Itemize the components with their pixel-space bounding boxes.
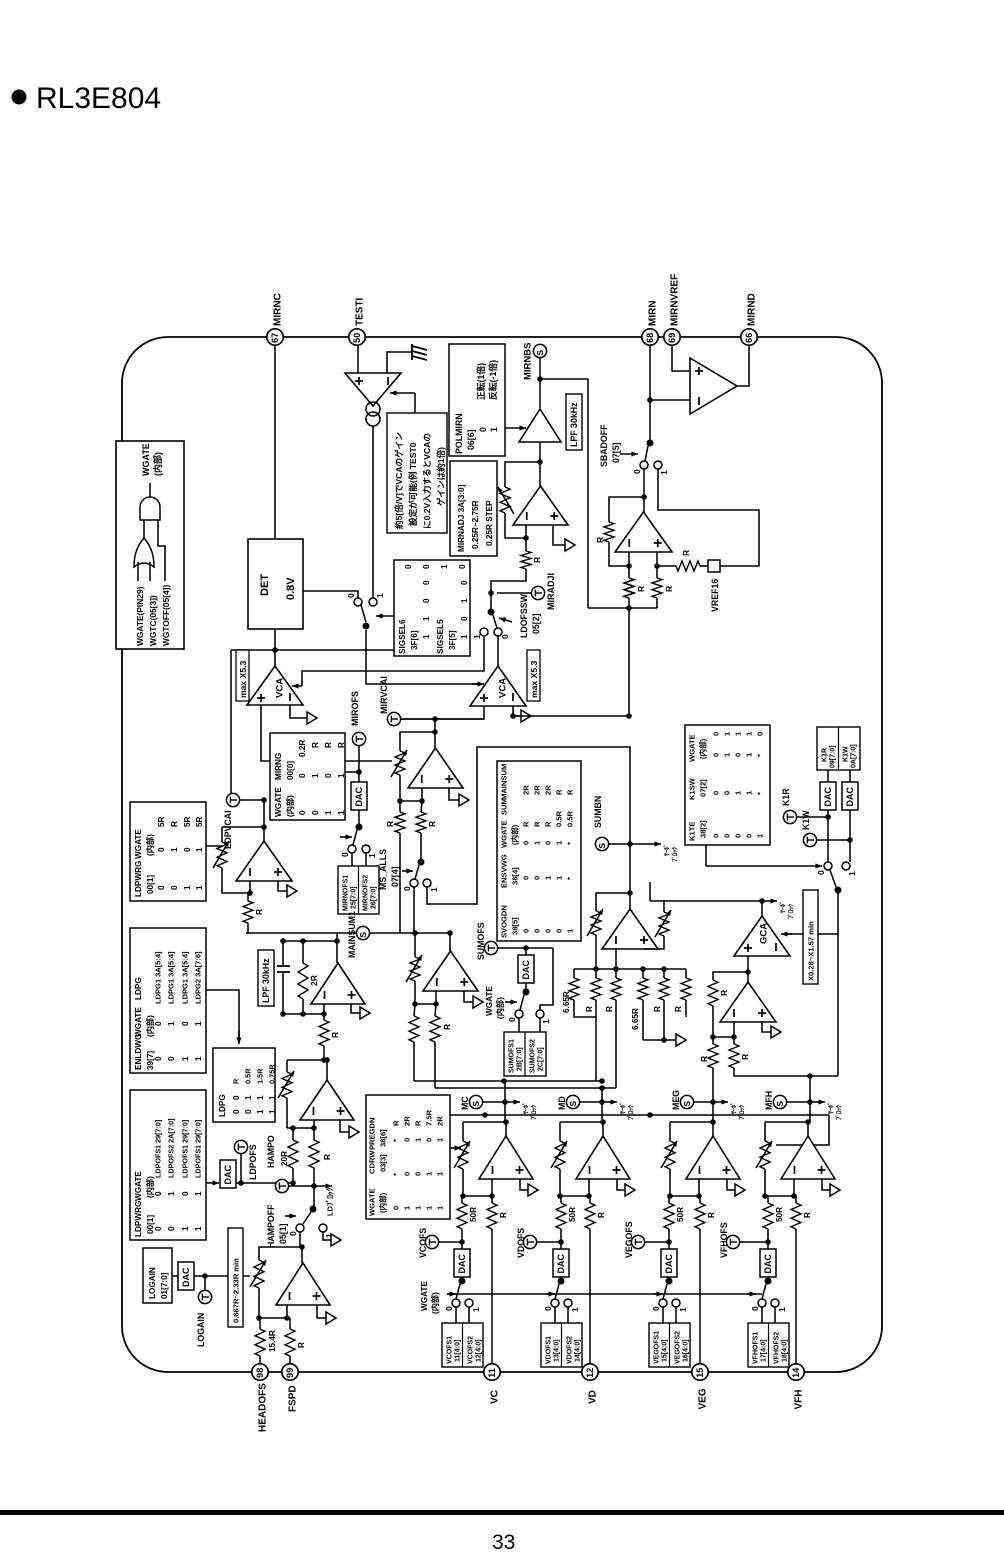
- resistor R: [521, 538, 542, 569]
- svg-text:6.65R: 6.65R: [562, 991, 571, 1013]
- wire MEG plus to flag: [727, 1179, 745, 1196]
- table K1TE K1SW WGATE: [685, 725, 770, 845]
- svg-text:R: R: [533, 821, 542, 827]
- arrow POLMIRN to buffer: [505, 427, 526, 429]
- svg-text:max X5.3: max X5.3: [529, 661, 539, 698]
- svg-text:LPF 30kHz: LPF 30kHz: [569, 402, 579, 447]
- input resistor row wire: [574, 968, 686, 970]
- svg-text:2B[7:0]: 2B[7:0]: [517, 1047, 524, 1071]
- svg-text:R: R: [427, 821, 437, 827]
- test point LOGAIN: [196, 1290, 211, 1347]
- svg-text:98: 98: [255, 1368, 265, 1378]
- op-amp MD mixer: [576, 1136, 630, 1179]
- svg-text:(内部): (内部): [378, 1192, 388, 1213]
- svg-text:WGATE: WGATE: [274, 787, 283, 817]
- DAC VCOFS: [454, 1249, 470, 1277]
- test point K1R: [781, 788, 831, 824]
- DAC LOGAIN: [172, 1262, 194, 1290]
- wire DET out: [303, 591, 358, 598]
- svg-text:ﾌﾞﾛｯｸ: ﾌﾞﾛｯｸ: [627, 1105, 635, 1120]
- svg-text:0: 0: [422, 580, 431, 585]
- register box MIRNOFS1 MIRNOFS2: [338, 866, 379, 914]
- svg-text:LDPG: LDPG: [218, 1094, 227, 1117]
- svg-text:POLMIRN: POLMIRN: [454, 413, 464, 454]
- svg-text:5R: 5R: [183, 816, 192, 827]
- svg-text:DAC: DAC: [354, 787, 364, 807]
- svg-text:0: 0: [723, 791, 732, 795]
- arrow from SIGSEL table: [376, 615, 394, 617]
- svg-text:R: R: [585, 1006, 594, 1012]
- svg-text:K1W: K1W: [801, 810, 811, 830]
- wire out to LDPVCAI node: [222, 800, 267, 841]
- svg-text:1: 1: [460, 598, 469, 603]
- wire sumofs out: [449, 933, 451, 951]
- svg-text:0: 0: [458, 564, 467, 569]
- wires switch to register box: [352, 853, 366, 866]
- register box VEGOFS1 VEGOFS2: [649, 1307, 690, 1367]
- wire ENLDWG to LDPG table: [206, 990, 242, 1044]
- resistor R down left: [699, 1037, 718, 1102]
- test point MIROFS: [350, 691, 365, 746]
- wire minus input: [525, 525, 527, 538]
- svg-text:99: 99: [285, 1368, 295, 1378]
- wire MS_ALLS-0 down: [413, 887, 415, 933]
- svg-text:05[1]: 05[1]: [278, 1223, 288, 1244]
- svg-text:0A[7:0]: 0A[7:0]: [851, 744, 858, 768]
- svg-text:(内部): (内部): [145, 834, 155, 856]
- wire SUMBN node: [609, 841, 646, 847]
- svg-text:20R: 20R: [280, 1151, 289, 1166]
- svg-text:ｻｰﾎﾞ: ｻｰﾎﾞ: [779, 901, 787, 913]
- register box VCOFS1 VCOFS2: [442, 1307, 483, 1367]
- svg-text:14: 14: [791, 1368, 801, 1378]
- svg-text:FSPD: FSPD: [288, 1385, 299, 1412]
- svg-text:WGATE: WGATE: [134, 829, 143, 859]
- svg-text:0: 0: [392, 1206, 401, 1210]
- test point HAMPO: [266, 1135, 314, 1193]
- wire left R down to sum wire: [399, 833, 401, 933]
- svg-text:0: 0: [712, 791, 721, 795]
- variable resistor MD: [551, 1122, 567, 1199]
- svg-text:S: S: [775, 1101, 785, 1107]
- max X5.3 box 2: [527, 650, 540, 701]
- wire sumofs dac node: [498, 945, 553, 955]
- svg-text:0: 0: [522, 876, 531, 880]
- op-amp MFH mixer: [781, 1136, 835, 1179]
- wire B plus to flag: [762, 1022, 781, 1038]
- svg-text:ｻｰﾎﾞ: ｻｰﾎﾞ: [730, 1102, 738, 1114]
- svg-text:1: 1: [195, 847, 204, 852]
- wire feedback: [596, 893, 630, 911]
- svg-text:R: R: [385, 821, 395, 827]
- svg-text:1: 1: [256, 1095, 265, 1100]
- pin 69 MIRNVREF: [664, 274, 681, 345]
- wire plus to flag: [351, 1004, 370, 1019]
- wire table to var resistor: [206, 845, 222, 847]
- resistor R: [585, 969, 601, 1081]
- test point VFHOFS: [719, 1222, 768, 1258]
- svg-text:1: 1: [429, 887, 439, 892]
- svg-text:R: R: [566, 789, 575, 795]
- svg-text:ｻｰﾎﾞ: ｻｰﾎﾞ: [827, 1102, 835, 1114]
- label LDOFSSW 05[2]: [519, 593, 541, 638]
- wire VCA1 plus input: [261, 705, 270, 761]
- wire K1 table to switch arrow: [706, 845, 822, 869]
- svg-text:0: 0: [414, 1172, 423, 1176]
- op-amp LDPWRG: [236, 841, 292, 881]
- resistor 6.65R: [562, 969, 596, 1017]
- svg-text:1: 1: [570, 1307, 580, 1312]
- svg-text:1: 1: [541, 1019, 551, 1024]
- svg-text:1: 1: [472, 634, 482, 639]
- signal source MFH: [764, 1091, 786, 1110]
- DAC VEGOFS: [661, 1249, 677, 1277]
- resistor R: [605, 969, 621, 1088]
- servo block arrow: [646, 843, 661, 845]
- arrow MS_ALLS: [402, 870, 413, 872]
- wire B out to GCA plus: [747, 972, 749, 982]
- svg-text:0: 0: [288, 1231, 298, 1236]
- svg-text:VD: VD: [588, 1390, 599, 1404]
- svg-text:DAC: DAC: [181, 1267, 191, 1287]
- table WGATE CDRW PREGDN: [366, 1095, 450, 1219]
- resistor 2R: [298, 941, 319, 1014]
- svg-text:R: R: [605, 1006, 614, 1012]
- wire plus to flag: [553, 525, 565, 545]
- svg-text:K1W: K1W: [843, 746, 850, 762]
- svg-text:15.4R: 15.4R: [268, 1330, 277, 1352]
- svg-text:0: 0: [154, 1191, 163, 1196]
- svg-text:(内部): (内部): [495, 997, 505, 1019]
- svg-text:2C[7:0]: 2C[7:0]: [538, 1047, 545, 1071]
- svg-text:VEGOFS1: VEGOFS1: [654, 1331, 661, 1364]
- svg-text:K1R: K1R: [781, 788, 791, 806]
- svg-text:WGATE: WGATE: [500, 820, 509, 848]
- svg-text:ﾌﾞﾛｯｸ: ﾌﾞﾛｯｸ: [738, 1105, 746, 1120]
- logic box WGATE internal: [116, 441, 184, 649]
- svg-text:MIRNC: MIRNC: [273, 293, 284, 326]
- wire minus from rail: [647, 397, 690, 403]
- svg-text:(内部): (内部): [430, 1292, 440, 1314]
- svg-text:WGATE: WGATE: [420, 1281, 429, 1311]
- svg-text:約5[倍/V]でVCAのゲイン: 約5[倍/V]でVCAのゲイン: [393, 432, 404, 529]
- resistor R right: [416, 801, 437, 833]
- svg-text:LPF 30kHz: LPF 30kHz: [261, 958, 271, 1003]
- svg-text:00[0]: 00[0]: [286, 761, 295, 780]
- wire 50R to DAC MEG: [666, 1229, 672, 1249]
- wire R to pin MD: [589, 1229, 591, 1364]
- resistor R gca: [708, 980, 729, 1037]
- svg-text:07[5]: 07[5]: [611, 442, 621, 463]
- svg-text:MS_ALLS: MS_ALLS: [378, 849, 388, 890]
- wire MEG node: [694, 1099, 716, 1105]
- wire pin67 to DET: [274, 345, 276, 539]
- ground flag: [459, 794, 469, 806]
- wire K1 pole to GCA control: [783, 890, 838, 934]
- svg-text:2R: 2R: [436, 1116, 445, 1126]
- table LDPWRG WGATE: [130, 802, 206, 901]
- svg-text:0: 0: [425, 1138, 434, 1142]
- wire R to pin MFH: [795, 1229, 797, 1364]
- svg-text:0: 0: [157, 847, 166, 852]
- svg-text:0: 0: [157, 885, 166, 890]
- wire LDPVCAI rail: [230, 650, 232, 800]
- variable resistor LDPWRG: [213, 827, 248, 893]
- svg-text:S: S: [358, 932, 368, 938]
- svg-text:12: 12: [585, 1368, 595, 1378]
- test point LDPVCAI: [223, 793, 267, 849]
- wire K1 rail down: [837, 934, 839, 1076]
- table SVOGDN ENSVWG WGATE SUM MAINSUM: [497, 761, 581, 941]
- svg-text:MIRNOFS2: MIRNOFS2: [363, 875, 370, 911]
- svg-text:R: R: [324, 742, 333, 748]
- pin 12 VD: [582, 1364, 599, 1404]
- svg-text:正転(1倍): 正転(1倍): [475, 363, 486, 400]
- variable resistor MEG: [661, 1122, 677, 1199]
- wire DET to VCA1: [274, 629, 276, 666]
- wire MFH feedback: [765, 1121, 808, 1123]
- wire minus node: [397, 775, 425, 804]
- page title bullet: [12, 90, 27, 105]
- svg-text:SUMOFS2: SUMOFS2: [530, 1039, 537, 1073]
- DAC VFHOFS: [760, 1249, 776, 1277]
- svg-text:38[4]: 38[4]: [511, 867, 520, 885]
- svg-text:S: S: [535, 350, 545, 356]
- svg-text:0: 0: [154, 1021, 163, 1026]
- or-gate: [134, 538, 154, 567]
- svg-text:MIROFS: MIROFS: [350, 691, 360, 726]
- svg-text:0: 0: [167, 1056, 176, 1061]
- wire DAC to var resistor: [194, 1273, 250, 1290]
- resistor R down right: [729, 1037, 838, 1076]
- svg-text:反転(-1倍): 反転(-1倍): [487, 360, 498, 400]
- svg-text:1: 1: [194, 1226, 203, 1231]
- wire MC node: [483, 1099, 508, 1105]
- arrow SBADOFF: [620, 453, 638, 455]
- svg-text:16[4:0]: 16[4:0]: [683, 1339, 690, 1362]
- test point VDOFS: [516, 1228, 561, 1258]
- svg-text:0: 0: [544, 929, 553, 933]
- resistor R MC: [487, 1196, 508, 1229]
- ground: [387, 344, 427, 373]
- svg-text:VCOFS2: VCOFS2: [468, 1336, 475, 1364]
- svg-text:MIRNBS: MIRNBS: [522, 343, 533, 380]
- switch DET/multiplier select: [346, 593, 385, 630]
- resistor R sumofs left: [409, 1004, 419, 1081]
- svg-text:R: R: [414, 1120, 423, 1126]
- svg-text:R: R: [597, 1212, 606, 1218]
- svg-text:1: 1: [170, 847, 179, 852]
- wire MIRNADJ out: [539, 462, 541, 486]
- svg-text:HAMPOFF: HAMPOFF: [266, 1204, 276, 1248]
- op-amp TESTI buffer: [345, 373, 401, 406]
- svg-text:12[4:0]: 12[4:0]: [476, 1339, 483, 1362]
- svg-text:0: 0: [712, 732, 721, 736]
- svg-text:25[7:0]: 25[7:0]: [351, 886, 358, 909]
- svg-text:SUMOFS: SUMOFS: [476, 922, 486, 960]
- wire minus row: [280, 1004, 327, 1017]
- resistor R left: [385, 801, 405, 833]
- svg-text:R: R: [699, 1056, 709, 1062]
- svg-text:R: R: [522, 821, 531, 827]
- svg-text:MIRNVREF: MIRNVREF: [670, 274, 681, 326]
- DAC LDP offset: [220, 1160, 236, 1188]
- table ENLDWG WGATE LDPG: [130, 928, 206, 1073]
- svg-text:(内部): (内部): [285, 795, 295, 817]
- svg-text:1: 1: [678, 1307, 688, 1312]
- wire MC minus node: [463, 1179, 495, 1199]
- svg-text:0: 0: [522, 929, 531, 933]
- wire minus node: [247, 881, 253, 896]
- svg-text:09[7:0]: 09[7:0]: [830, 745, 837, 768]
- svg-text:1: 1: [195, 885, 204, 890]
- svg-text:07[2]: 07[2]: [699, 779, 708, 797]
- svg-text:ゲインは約1倍): ゲインは約1倍): [435, 447, 446, 506]
- svg-text:SIGSEL5: SIGSEL5: [436, 619, 445, 654]
- svg-text:R: R: [681, 550, 691, 556]
- svg-text:VEGOFS2: VEGOFS2: [675, 1331, 682, 1364]
- svg-text:*: *: [756, 792, 765, 795]
- svg-text:07[4]: 07[4]: [390, 866, 400, 887]
- wire MC feed: [504, 1081, 506, 1102]
- svg-text:1: 1: [181, 1226, 190, 1231]
- svg-text:13[4:0]: 13[4:0]: [554, 1339, 561, 1362]
- svg-text:MIRADJI: MIRADJI: [546, 573, 556, 610]
- op-amp servo B: [720, 982, 776, 1022]
- wire MC amp output: [503, 1102, 509, 1136]
- svg-text:S: S: [471, 1101, 481, 1107]
- resistor 20R: [280, 1128, 298, 1186]
- svg-text:MD: MD: [557, 1096, 567, 1110]
- wire MEG minus node: [670, 1179, 702, 1199]
- node VCA1 output: [272, 647, 278, 653]
- resistor R to VREF16: [657, 550, 708, 571]
- svg-text:LDﾌﾞﾛｯｸ: LDﾌﾞﾛｯｸ: [326, 1187, 335, 1216]
- svg-text:0: 0: [544, 841, 553, 845]
- svg-text:50R: 50R: [469, 1207, 478, 1222]
- wire to LDPG stage: [324, 1059, 327, 1061]
- svg-text:0: 0: [533, 929, 542, 933]
- schematic frame: [122, 337, 882, 1372]
- op-amp LDPG stage: [300, 1080, 354, 1120]
- resistor 6.65R second: [631, 969, 648, 1040]
- resistor R plus: [652, 578, 674, 598]
- op-amp SBAD diff: [615, 512, 672, 552]
- svg-text:1: 1: [337, 810, 346, 815]
- svg-text:LDPG1 3A[5:4]: LDPG1 3A[5:4]: [167, 951, 176, 1004]
- svg-text:VCA: VCA: [497, 678, 508, 698]
- svg-text:R: R: [323, 1154, 332, 1160]
- svg-text:max X5.3: max X5.3: [238, 661, 248, 698]
- resistor R MEG: [695, 1196, 716, 1229]
- svg-text:DAC: DAC: [521, 960, 531, 980]
- svg-text:15: 15: [695, 1368, 705, 1378]
- variable resistor sumofs fb: [406, 933, 422, 1007]
- svg-text:26[7:0]: 26[7:0]: [371, 886, 378, 909]
- wire switch-0 to LOGAIN stage: [299, 1232, 305, 1250]
- svg-text:01[7:0]: 01[7:0]: [160, 1272, 169, 1299]
- wire to amp apex: [432, 719, 438, 748]
- svg-text:05[2]: 05[2]: [531, 613, 541, 634]
- svg-text:2R: 2R: [309, 975, 319, 986]
- svg-text:66: 66: [744, 333, 754, 343]
- svg-text:0: 0: [478, 427, 488, 432]
- resistor R feedback: [595, 522, 629, 566]
- svg-text:R: R: [337, 742, 346, 748]
- svg-text:VFHOFS1: VFHOFS1: [753, 1332, 760, 1364]
- svg-text:1: 1: [181, 1056, 190, 1061]
- svg-text:0.75R: 0.75R: [268, 1064, 277, 1084]
- bus wire 1: [414, 1078, 605, 1084]
- svg-text:0: 0: [756, 732, 765, 736]
- svg-text:69: 69: [667, 333, 677, 343]
- svg-text:0: 0: [543, 1306, 553, 1311]
- svg-text:1: 1: [268, 1095, 277, 1100]
- wire MIROFS to DAC: [356, 746, 362, 782]
- svg-text:DAC: DAC: [457, 1254, 467, 1274]
- switch VFHOFS select: [750, 1277, 787, 1312]
- op-amp MC mixer: [479, 1136, 533, 1179]
- arrow WGATE select: [447, 1293, 456, 1295]
- arrow VCA1 control: [292, 685, 302, 687]
- wire amp out: [643, 497, 645, 512]
- svg-text:R: R: [803, 1212, 812, 1218]
- wire DACs to switch: [828, 810, 850, 862]
- svg-text:0: 0: [745, 834, 754, 838]
- svg-text:1.5R: 1.5R: [256, 1068, 265, 1084]
- DAC sum offset: [518, 955, 534, 983]
- wire plus to flag: [449, 788, 459, 800]
- svg-text:MIRN: MIRN: [648, 300, 659, 326]
- svg-text:LDPWRG: LDPWRG: [134, 861, 143, 897]
- gain range box X0.28-X1.57: [803, 890, 818, 984]
- op-amp SUMOFS: [423, 951, 478, 991]
- test point MIRADJI: [497, 573, 556, 610]
- signal source MD: [557, 1095, 579, 1110]
- wire MIRNBS rail right: [540, 379, 588, 608]
- svg-text:50: 50: [352, 333, 362, 343]
- wire B minus node: [710, 1022, 737, 1040]
- svg-text:R: R: [330, 1032, 340, 1038]
- svg-text:VDOFS: VDOFS: [516, 1228, 526, 1258]
- DAC MIRN offset: [351, 782, 367, 810]
- svg-text:17[4:0]: 17[4:0]: [761, 1339, 768, 1362]
- wire MFH node: [787, 1099, 813, 1105]
- svg-text:38[6]: 38[6]: [379, 1129, 388, 1147]
- wire 50R to DAC MFH: [765, 1229, 771, 1249]
- variable resistor MIRNADJ: [498, 487, 514, 514]
- op-amp LPF stage: [311, 963, 365, 1004]
- svg-text:1: 1: [167, 1021, 176, 1026]
- svg-text:VFH: VFH: [794, 1390, 805, 1410]
- svg-text:R: R: [499, 1212, 508, 1218]
- svg-text:K1R: K1R: [822, 748, 829, 762]
- svg-text:*: *: [392, 1173, 401, 1176]
- svg-text:*: *: [566, 842, 575, 845]
- arrow LDOFSSW: [499, 618, 512, 622]
- svg-text:LDPOFS2 2A[7:0]: LDPOFS2 2A[7:0]: [167, 1118, 176, 1178]
- svg-text:50R: 50R: [775, 1207, 784, 1222]
- variable resistor MFH: [756, 1122, 772, 1199]
- svg-text:R: R: [636, 586, 646, 592]
- svg-text:R: R: [170, 821, 179, 827]
- label SBADOFF 07[5]: [599, 424, 621, 467]
- svg-text:50R: 50R: [568, 1207, 577, 1222]
- svg-text:0: 0: [403, 1172, 412, 1176]
- svg-text:WGATE: WGATE: [485, 986, 494, 1016]
- wire R to LDOFSSW node: [488, 569, 526, 596]
- DAC K1W: [842, 770, 858, 810]
